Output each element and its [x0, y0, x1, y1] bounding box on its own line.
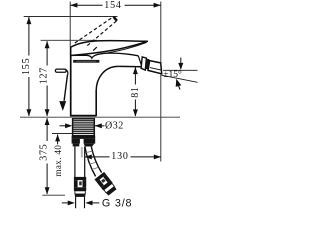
- aerator ball-joint collar: [141, 57, 146, 70]
- right hose collar: [84, 144, 95, 147]
- lever raised tip: [114, 17, 117, 21]
- svg-text:375: 375: [39, 143, 50, 160]
- lever inner edge line: [99, 43, 146, 55]
- faucet body right edge: [95, 91, 97, 116]
- dimension 130 line: [85, 156, 110, 158]
- max. 40 tick line: [52, 133, 72, 135]
- spout angled cut at aerator joint: [138, 56, 142, 67]
- pop-up rod neck: [65, 70, 68, 75]
- svg-text:130: 130: [111, 151, 128, 162]
- pop-up rod knob: [55, 69, 66, 72]
- dimension 154 line: [70, 4, 102, 6]
- angle 15 deg inclined reference line: [162, 75, 198, 82]
- lever raised short dash near pivot: [93, 47, 97, 51]
- dimension 155 line: [28, 17, 30, 56]
- vertical supply hose: [74, 146, 76, 177]
- svg-text:Ø32: Ø32: [105, 121, 124, 132]
- dimension 375 line: [46, 118, 48, 141]
- left hose collar: [73, 144, 80, 147]
- svg-text:G 3/8: G 3/8: [102, 198, 132, 210]
- lever handle (rest position): [71, 41, 148, 56]
- lever raised position dashed bottom edge: [87, 21, 117, 46]
- dimension 81 line: [134, 67, 136, 84]
- pop-up rod arrow: [59, 101, 66, 111]
- vertical hose hex nut: [74, 180, 78, 187]
- G3/8 nipple tube: [75, 197, 77, 208]
- spout bottom edge: [118, 65, 142, 67]
- shank lower band: [72, 136, 96, 139]
- dimension 127 line: [46, 41, 48, 65]
- svg-text:155: 155: [21, 58, 32, 75]
- angled hose connector (tilted stack): [94, 172, 117, 196]
- faucet body left edge: [70, 48, 72, 116]
- connector dark tip: [106, 186, 116, 195]
- angle 15 deg horizontal reference line: [163, 69, 198, 71]
- extension line y=195.2 (hose end): [42, 194, 65, 196]
- hose print label: [81, 147, 83, 158]
- faucet body bottom edge: [70, 115, 97, 117]
- connector white segment: [104, 183, 115, 192]
- vertical hose connector band: [74, 177, 86, 180]
- connector lower band: [101, 180, 113, 190]
- max. 40 arrow: [57, 135, 59, 145]
- diameter 32 leader right: [95, 125, 105, 127]
- angle arrow up: [176, 79, 182, 87]
- diameter 32 leader left: [60, 125, 67, 127]
- pop-up rod stem: [64, 75, 67, 101]
- connector hex: [103, 174, 110, 182]
- G 3/8 leader arrows: [62, 202, 68, 204]
- svg-text:±15°: ±15°: [163, 69, 182, 80]
- svg-text:81: 81: [130, 86, 141, 98]
- vertical hose dark cap: [75, 194, 85, 197]
- aerator dark ring: [146, 59, 150, 70]
- aerator cup: [148, 61, 162, 74]
- faucet body flare arc into spout: [96, 66, 118, 90]
- counter mounting surface line: [20, 116, 180, 118]
- svg-text:max. 40: max. 40: [53, 145, 63, 177]
- angled supply hose right wall: [91, 147, 101, 173]
- angled hose braid ticks: [86, 151, 98, 170]
- vertical hose lower band: [74, 187, 86, 191]
- extension line y=16.5 (top of raised lever): [24, 16, 118, 18]
- aerator inner line: [150, 68, 161, 71]
- hansgrohe logo band on body: [73, 60, 99, 63]
- connector band: [94, 172, 106, 182]
- vertical hose white segment: [75, 191, 85, 194]
- angled supply hose left wall: [85, 147, 96, 177]
- body cap top and spout top edge: [71, 53, 139, 58]
- lever raised position dashed top edge: [75, 17, 114, 43]
- right hose nut: [84, 139, 96, 144]
- extension line left (x=70) for dim 154: [69, 2, 71, 48]
- extension line y=40.3 (top of lever at rest): [41, 39, 97, 41]
- left hose nut: [72, 139, 80, 144]
- svg-text:154: 154: [104, 0, 121, 11]
- threaded shank: [73, 119, 95, 136]
- svg-text:127: 127: [39, 67, 50, 84]
- extension line right (x=160.8) for dims 154 and 130: [160, 2, 162, 162]
- angle arrow down: [180, 58, 182, 64]
